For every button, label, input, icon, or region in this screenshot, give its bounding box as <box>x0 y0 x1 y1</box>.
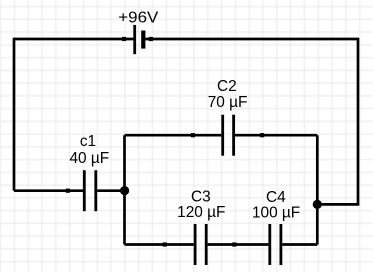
wire c1 left lead <box>14 189 83 192</box>
wire right link to junction <box>317 203 359 206</box>
terminal nub battery right <box>149 37 153 41</box>
capacitor C2 <box>223 115 234 156</box>
terminal nub C2 right <box>260 133 264 137</box>
svg-text:C3: C3 <box>191 189 211 206</box>
svg-text:C2: C2 <box>217 78 237 95</box>
wire c1 right lead to junction <box>97 189 124 192</box>
wire bottom left segment to C3 <box>125 243 194 246</box>
terminal nub C3 left <box>163 242 167 246</box>
wire inner-right vertical <box>316 135 319 244</box>
terminal nub C3-C4 middle <box>232 242 236 246</box>
node junction dot left (c1 / inner-left rail) <box>120 186 129 195</box>
wire top-right from battery to right rail <box>145 38 358 41</box>
terminal nub battery left <box>122 37 126 41</box>
node junction dot right (right rail link) <box>313 200 322 209</box>
wire top-left from battery to left rail <box>14 38 133 41</box>
svg-text:40 µF: 40 µF <box>69 150 109 167</box>
wire right rail vertical <box>357 38 360 205</box>
terminal nub C2 left <box>191 133 195 137</box>
capacitor C4 <box>270 224 281 265</box>
svg-text:+96V: +96V <box>118 9 159 26</box>
capacitor c1 <box>84 170 96 211</box>
wire inner-left vertical <box>123 135 126 244</box>
wire between C3 and C4 <box>208 243 269 246</box>
battery V1 <box>135 25 144 54</box>
capacitor C3 <box>195 224 206 265</box>
wire C2 right lead <box>235 134 317 137</box>
terminal nub c1 left <box>66 189 70 193</box>
wire bottom right segment from C4 <box>282 243 317 246</box>
svg-text:120 µF: 120 µF <box>177 204 225 221</box>
svg-text:c1: c1 <box>80 133 96 150</box>
svg-text:100 µF: 100 µF <box>252 204 300 221</box>
svg-text:70 µF: 70 µF <box>208 94 248 111</box>
wire left rail vertical <box>13 38 16 191</box>
wire C2 left lead <box>125 134 222 137</box>
